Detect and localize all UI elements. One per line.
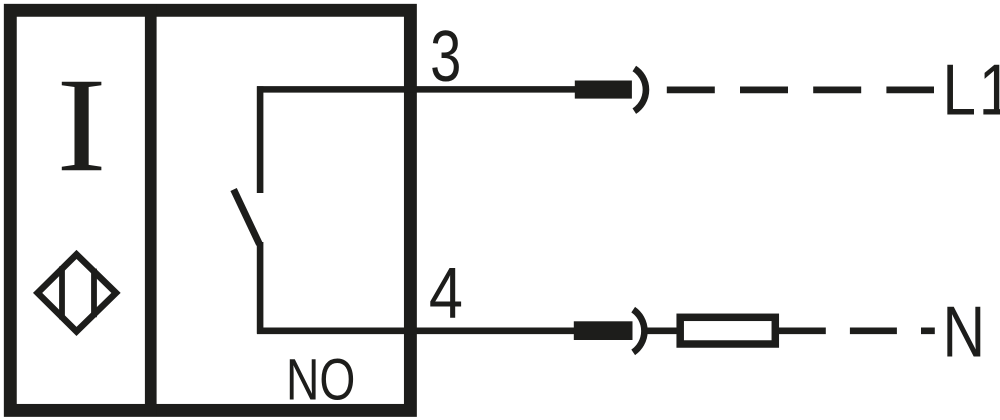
svg-text:N: N [943,291,986,372]
sensor body outline [10,10,410,410]
svg-text:I: I [56,51,106,201]
sensor type label I [56,51,106,201]
diamond left chord [59,266,65,319]
wire: switch top to pin 3 [257,86,576,93]
output type label NO [286,347,355,412]
connector socket arc pin 3 [634,69,646,112]
wire: socket to load [646,327,679,334]
svg-text:1: 1 [979,51,1000,131]
net label N [943,291,986,372]
sensor body divider [145,4,157,416]
wire: switch upper contact vertical [257,86,264,193]
proximity switch diamond symbol [38,254,116,331]
connector socket arc pin 4 [633,310,644,353]
svg-text:4: 4 [429,254,463,334]
dashed wire to N [779,327,935,334]
connector plug pin 3 [575,81,632,99]
diamond right chord [91,269,97,318]
wire: switch lower contact vertical [257,242,264,334]
wire: switch bottom to pin 4 [257,327,575,334]
pin label 4 [429,254,463,334]
connector plug pin 4 [574,321,633,340]
switch blade (NO contact) [234,190,260,245]
net label L1 [942,51,976,131]
dashed wire to L1 [667,86,934,93]
load (lamp/relay) box [680,317,775,344]
pin label 3 [430,16,461,96]
svg-text:3: 3 [430,16,461,96]
svg-text:NO: NO [286,347,355,412]
svg-text:L: L [942,51,976,131]
